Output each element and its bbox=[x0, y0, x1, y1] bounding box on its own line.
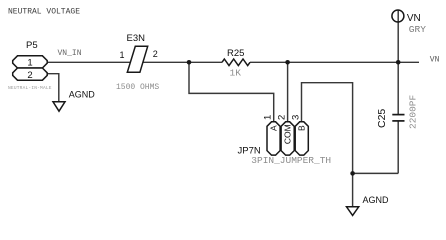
svg-text:2200PF: 2200PF bbox=[407, 94, 418, 129]
svg-text:B: B bbox=[297, 125, 307, 131]
wire P5 pin2 to AGND bbox=[48, 74, 59, 102]
capacitor C25 bbox=[376, 94, 418, 129]
ferrite bead E3N bbox=[116, 33, 159, 92]
wire junction drop to JP7N pin 1 bbox=[189, 62, 274, 122]
JP7N pin B pill bbox=[295, 122, 308, 155]
ground AGND right bbox=[347, 195, 390, 216]
jumper JP7N bbox=[238, 115, 332, 166]
wire bottom node to C25 bbox=[353, 172, 399, 174]
svg-text:1K: 1K bbox=[230, 68, 242, 79]
svg-text:P5: P5 bbox=[26, 40, 38, 51]
svg-text:1: 1 bbox=[120, 50, 125, 60]
svg-text:C25: C25 bbox=[376, 109, 388, 128]
svg-text:NEUTRAL VOLTAGE: NEUTRAL VOLTAGE bbox=[8, 8, 80, 17]
svg-text:NEUTRAL-IN-MALE: NEUTRAL-IN-MALE bbox=[8, 85, 52, 91]
svg-text:COM: COM bbox=[282, 124, 292, 144]
svg-text:1: 1 bbox=[263, 115, 274, 120]
junction dot at COM drop bbox=[285, 60, 290, 65]
svg-text:3PIN_JUMPER_TH: 3PIN_JUMPER_TH bbox=[251, 155, 331, 166]
svg-text:A: A bbox=[268, 125, 278, 131]
wire junction drop to JP7N pin 2 COM bbox=[287, 62, 289, 122]
junction dot at bottom node bbox=[350, 171, 355, 176]
svg-text:2: 2 bbox=[27, 70, 32, 81]
wire VN symbol down through C25 top lead bbox=[397, 10, 399, 115]
JP7N pin COM pill bbox=[281, 122, 294, 155]
power symbol VN bbox=[392, 10, 426, 35]
svg-text:1500 OHMS: 1500 OHMS bbox=[116, 83, 159, 92]
wire main net VN_IN/VN horizontal bbox=[48, 10, 420, 207]
svg-text:3: 3 bbox=[291, 115, 302, 120]
junction dot at VN riser bbox=[396, 60, 401, 65]
svg-text:2: 2 bbox=[277, 115, 288, 120]
svg-text:AGND: AGND bbox=[69, 90, 96, 100]
svg-text:VN_IN: VN_IN bbox=[58, 49, 82, 58]
wire JP7N pin 3 to bottom node bbox=[302, 83, 353, 207]
ground AGND left bbox=[53, 90, 95, 112]
P5 pin 1 pill bbox=[13, 56, 48, 68]
svg-text:1: 1 bbox=[27, 58, 32, 69]
connector P5 bbox=[8, 40, 52, 91]
svg-text:E3N: E3N bbox=[127, 33, 146, 44]
svg-text:AGND: AGND bbox=[363, 195, 390, 205]
wire C25 bottom lead bbox=[397, 121, 399, 174]
svg-text:2: 2 bbox=[153, 49, 158, 59]
P5 pin 2 pill bbox=[13, 68, 48, 80]
resistor R25 bbox=[222, 48, 250, 78]
svg-text:VN: VN bbox=[430, 56, 440, 65]
svg-text:R25: R25 bbox=[227, 48, 244, 59]
JP7N pin A pill bbox=[267, 122, 280, 155]
junction dot at E3N/R25 node bbox=[187, 60, 192, 65]
svg-text:GRY: GRY bbox=[409, 24, 426, 35]
svg-text:VN: VN bbox=[407, 13, 421, 24]
